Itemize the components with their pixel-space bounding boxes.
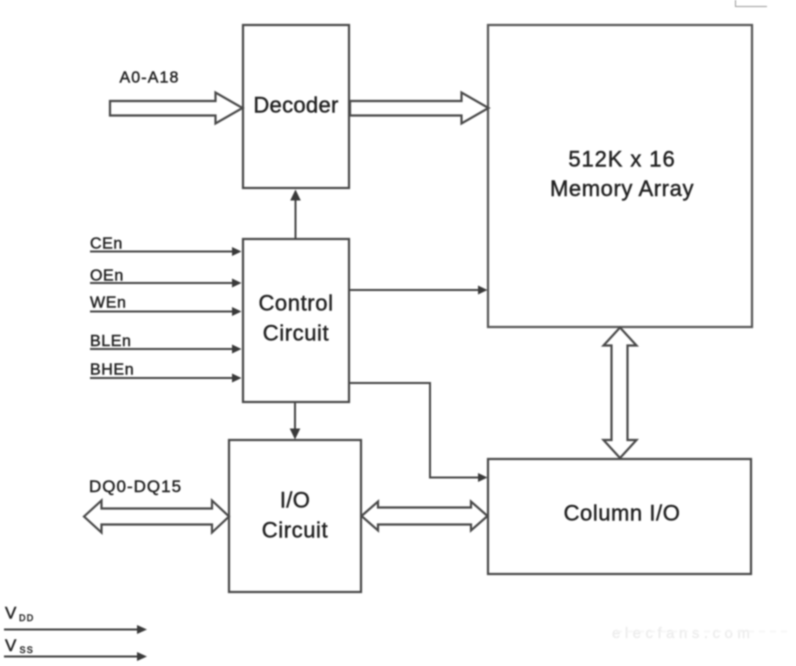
block U4 I/O Circuit	[229, 440, 361, 592]
bus A0-A18 into Decoder	[110, 70, 243, 124]
bus DQ0-DQ15 to I/O Circuit	[84, 477, 229, 533]
svg-text:CEn: CEn	[90, 236, 123, 253]
svg-text:BHEn: BHEn	[90, 362, 134, 379]
svg-text:Column I/O: Column I/O	[564, 501, 681, 526]
svg-text:WEn: WEn	[90, 295, 126, 312]
wire Control Circuit to Column I/O	[350, 383, 488, 482]
block U2 512K x 16 Memory Array	[488, 25, 752, 327]
power VDD	[4, 604, 147, 635]
power VSS	[4, 636, 147, 661]
svg-text:elecfans.com: elecfans.com	[612, 625, 754, 642]
svg-text:A0-A18: A0-A18	[120, 70, 180, 87]
svg-text:Control: Control	[258, 291, 333, 316]
svg-text:Memory Array: Memory Array	[550, 176, 694, 201]
svg-text:Circuit: Circuit	[262, 518, 329, 543]
svg-text:DD: DD	[19, 613, 34, 623]
wire Control Circuit to Memory Array	[350, 286, 488, 295]
crop artifact: partial box corner top-right	[736, 0, 768, 7]
bus I/O Circuit to Column I/O	[362, 502, 488, 531]
svg-text:I/O: I/O	[280, 488, 310, 513]
svg-text:V: V	[5, 636, 17, 655]
svg-text:V: V	[5, 604, 17, 623]
block U1 Decoder	[243, 25, 349, 188]
svg-text:OEn: OEn	[90, 268, 124, 285]
svg-text:Decoder: Decoder	[253, 93, 338, 118]
block U3 Control Circuit	[243, 239, 349, 402]
svg-text:DQ0-DQ15: DQ0-DQ15	[89, 477, 182, 496]
wire Control Circuit to Decoder	[290, 190, 301, 240]
signal CEn	[90, 236, 242, 257]
svg-text:BLEn: BLEn	[90, 333, 132, 350]
signal WEn	[90, 295, 242, 317]
signal BHEn	[90, 362, 242, 383]
svg-text:Circuit: Circuit	[263, 321, 330, 346]
svg-text:SS: SS	[20, 645, 34, 655]
svg-text:512K x 16: 512K x 16	[568, 147, 675, 172]
watermark (faint)	[612, 625, 790, 642]
signal OEn	[90, 268, 242, 288]
signal BLEn	[90, 333, 242, 354]
bus Decoder to Memory Array	[350, 93, 489, 124]
block U5 Column I/O	[488, 459, 751, 574]
wire Control Circuit to I/O Circuit	[290, 403, 301, 440]
bus Memory Array to Column I/O	[604, 328, 637, 459]
